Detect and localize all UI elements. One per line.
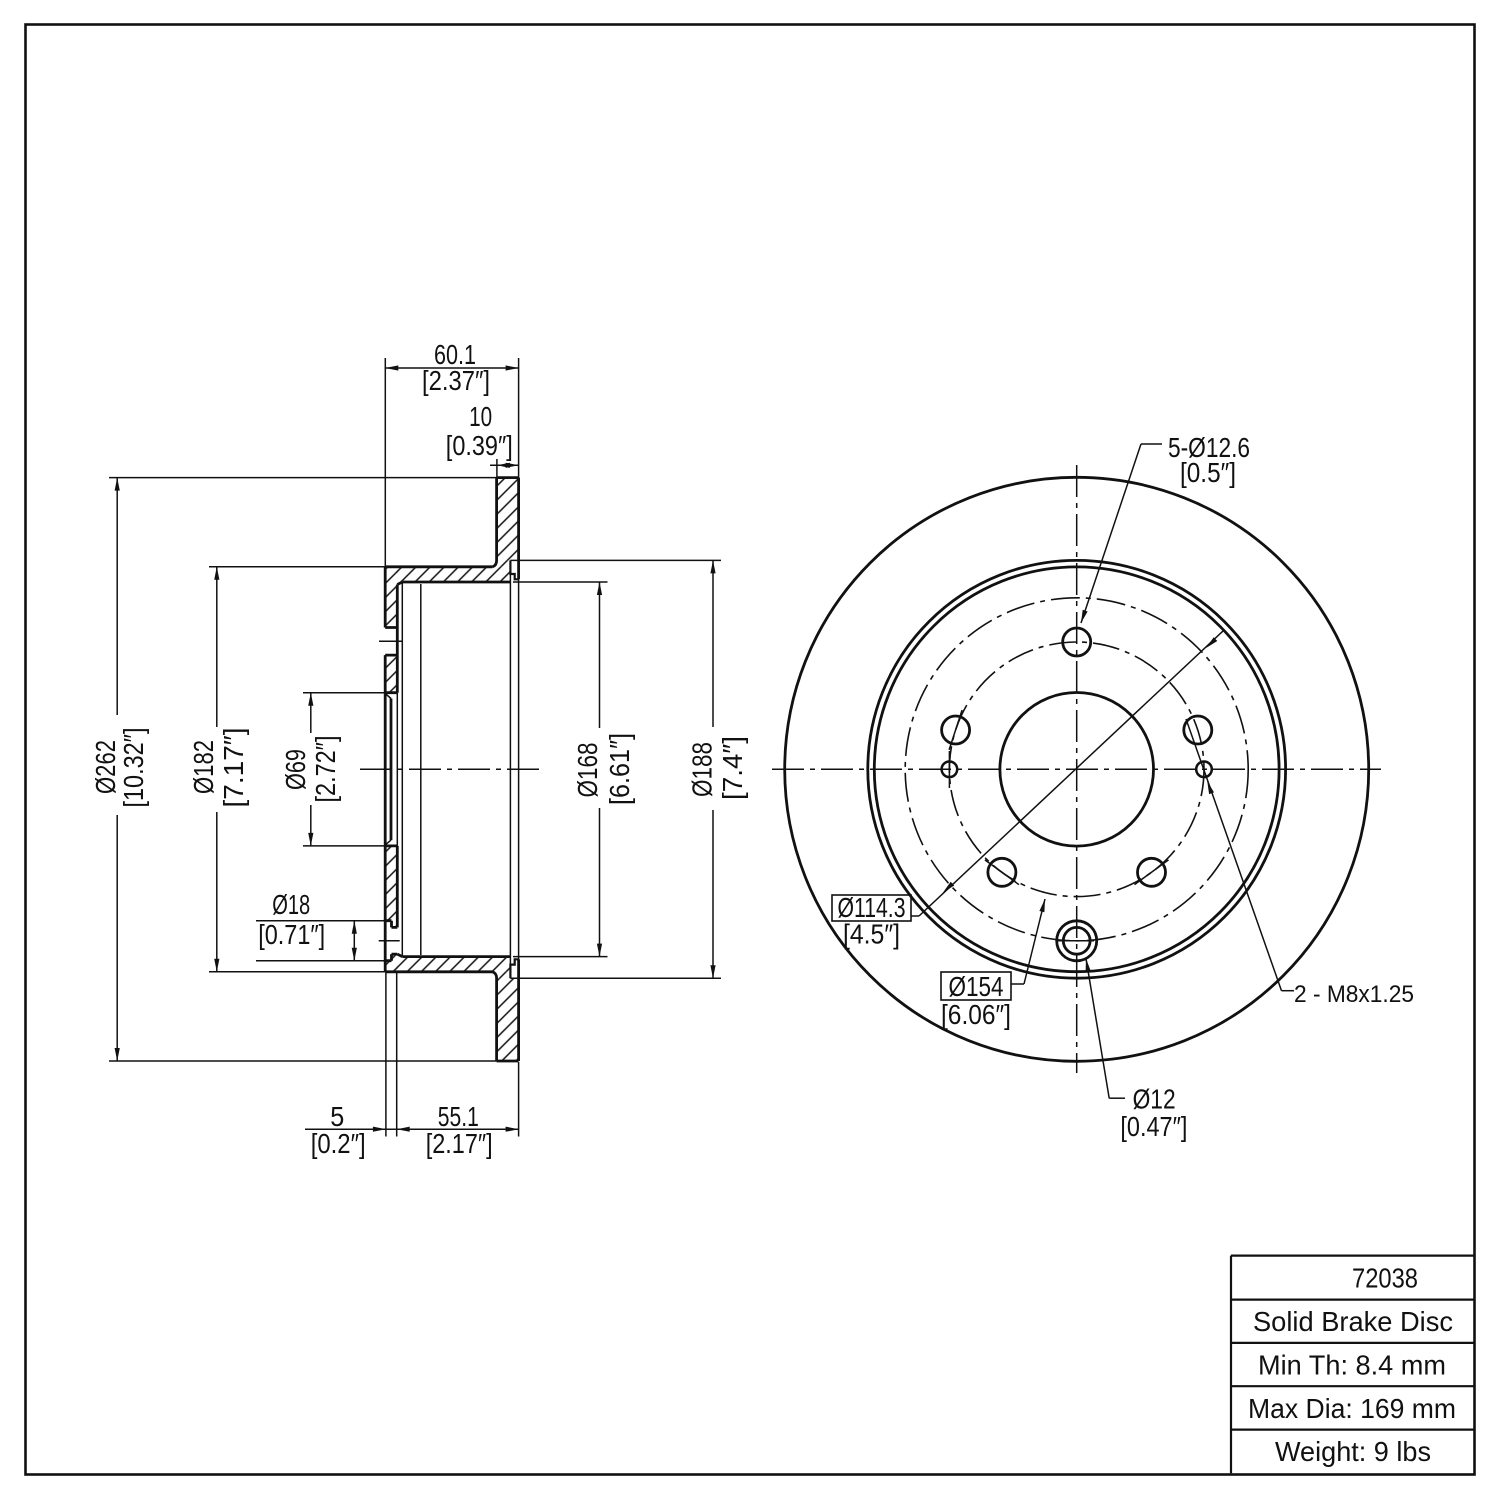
front view: bolt circle D114.3 (dash-dot) (949, 642, 1204, 897)
dim Ø182 [7.17"] hat diameter (209, 566, 385, 568)
section: centerline (360, 768, 545, 770)
front view: 2 M8 thread holes (942, 762, 958, 778)
front view: ring inner circle D188 (868, 560, 1286, 978)
svg-text:[0.5″]: [0.5″] (1180, 457, 1236, 488)
lug hole tangent ticks (949, 710, 962, 750)
svg-text:[0.47″]: [0.47″] (1120, 1111, 1187, 1142)
dim 10 [0.39"] disc thickness (496, 459, 498, 478)
svg-text:[2.72″]: [2.72″] (310, 736, 341, 803)
svg-text:Ø154: Ø154 (949, 971, 1004, 1002)
label D12 [0.47"] with leader (1109, 1097, 1125, 1099)
svg-text:[2.17″]: [2.17″] (426, 1128, 493, 1159)
dim Ø262 [10.32"] outer diameter (109, 477, 497, 479)
svg-text:[6.06″]: [6.06″] (941, 999, 1011, 1030)
svg-text:[7.17″]: [7.17″] (218, 728, 249, 808)
label 2 - M8x1.25 with leader (1282, 990, 1295, 992)
label D154 [6.06"] boxed with leader (941, 972, 1011, 1000)
front view: outer circle D262 (785, 477, 1369, 1061)
label D114.3 [4.5"] boxed (832, 895, 911, 921)
svg-text:Ø182: Ø182 (188, 740, 219, 794)
svg-text:Ø188: Ø188 (687, 742, 718, 797)
dim 60.1 [2.37"] overall depth (384, 358, 386, 567)
svg-text:[0.2″]: [0.2″] (311, 1128, 366, 1159)
front view: D12 hole with D18 counterbore (bottom) (1063, 927, 1090, 954)
svg-text:[0.39″]: [0.39″] (446, 430, 513, 461)
svg-text:Ø69: Ø69 (280, 749, 311, 790)
svg-text:Min Th: 8.4 mm: Min Th: 8.4 mm (1258, 1350, 1446, 1381)
svg-text:Ø168: Ø168 (572, 743, 603, 798)
section: thin interior edges (396, 693, 398, 846)
svg-text:Ø12: Ø12 (1133, 1084, 1176, 1115)
label 5-D12.6 [0.5"] with leader (1141, 443, 1162, 445)
section: outline (thick) (497, 476, 519, 479)
svg-text:[2.37″]: [2.37″] (422, 365, 490, 396)
svg-text:[7.4″]: [7.4″] (717, 736, 748, 800)
title block table (1231, 1254, 1475, 1256)
front view: bolt circle D154 (dash-dot) (905, 598, 1248, 941)
svg-text:72038: 72038 (1352, 1263, 1418, 1294)
svg-text:Solid Brake Disc: Solid Brake Disc (1253, 1306, 1453, 1337)
svg-text:[0.71″]: [0.71″] (258, 919, 325, 950)
svg-text:Weight: 9 lbs: Weight: 9 lbs (1275, 1436, 1431, 1467)
dim Ø69 [2.72"] center bore (303, 692, 385, 694)
dim Ø18 [0.71"] counterbore (256, 920, 385, 922)
svg-text:[10.32″]: [10.32″] (118, 728, 149, 808)
D154 diameter line across bolt circle (919, 631, 1223, 916)
svg-text:10: 10 (469, 401, 492, 432)
front view: center bore D69 (1000, 693, 1154, 847)
dim Ø188 [7.4"] (510, 559, 721, 561)
svg-text:[6.61″]: [6.61″] (604, 733, 635, 805)
svg-text:Ø262: Ø262 (90, 740, 121, 794)
svg-text:2 - M8x1.25: 2 - M8x1.25 (1294, 981, 1414, 1008)
dim 5 [0.2"] flange thickness + dim 55.1 [2.17"] (385, 973, 387, 1137)
front view: 5 lug holes D12.6 (1063, 628, 1091, 656)
dim Ø168 [6.61"] (513, 581, 608, 583)
front view: hat circle D182 (874, 567, 1279, 972)
svg-text:Ø18: Ø18 (272, 889, 310, 920)
section: hatch fills (497, 478, 519, 561)
front view: centerlines (772, 768, 1381, 770)
svg-text:[4.5″]: [4.5″] (843, 919, 900, 950)
svg-text:Max Dia: 169 mm: Max Dia: 169 mm (1248, 1393, 1456, 1424)
